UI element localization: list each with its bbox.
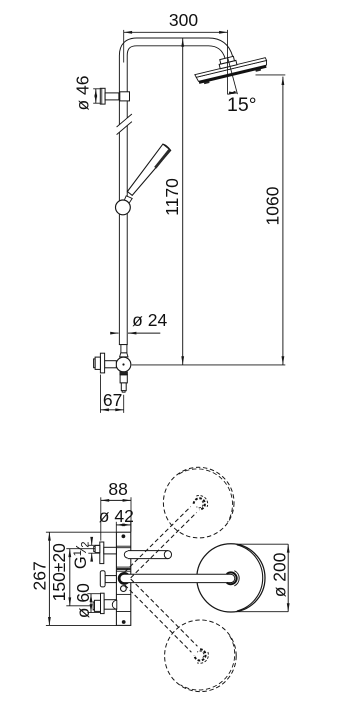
svg-text:1170: 1170 — [162, 178, 182, 216]
wire — [228, 57, 238, 94]
node F — [119, 573, 130, 584]
node H — [121, 586, 127, 592]
node J — [196, 496, 207, 507]
wire — [116, 545, 130, 547]
node B — [120, 92, 130, 101]
V2 — [105, 576, 116, 583]
wire — [256, 74, 286, 76]
wire — [125, 585, 192, 652]
wire — [131, 513, 197, 578]
Q1 — [116, 357, 131, 372]
svg-text:ø 46: ø 46 — [73, 75, 93, 110]
U4 — [197, 544, 265, 612]
wire — [227, 30, 229, 94]
svg-text:15°: 15° — [227, 94, 257, 116]
ground — [100, 88, 105, 104]
Q2 — [105, 361, 117, 368]
svg-text:267: 267 — [29, 561, 49, 590]
wire — [105, 93, 119, 100]
wire — [236, 543, 288, 545]
svg-text:67: 67 — [103, 390, 122, 410]
V1 — [100, 542, 104, 564]
node A — [119, 344, 128, 346]
Q3 — [120, 372, 128, 375]
wire — [100, 375, 102, 413]
wire — [128, 551, 168, 559]
node I — [124, 551, 131, 558]
svg-text:300: 300 — [169, 10, 198, 30]
wire — [87, 593, 100, 595]
wire — [132, 364, 286, 366]
wire — [113, 332, 119, 334]
V3 — [104, 600, 116, 610]
node G — [234, 571, 239, 586]
wire — [282, 77, 284, 365]
wire — [228, 93, 238, 94]
wire — [123, 30, 125, 63]
wire — [115, 522, 117, 532]
wire — [66, 548, 95, 550]
screw top — [122, 534, 126, 538]
svg-text:ø 24: ø 24 — [132, 310, 167, 330]
wire — [123, 42, 229, 345]
U3 — [116, 532, 130, 625]
svg-text:ø 200: ø 200 — [269, 552, 289, 597]
svg-text:150±20: 150±20 — [49, 543, 69, 602]
U1 — [127, 144, 170, 195]
node D — [116, 200, 131, 215]
svg-text:ø 42: ø 42 — [99, 506, 134, 526]
screw bottom — [122, 620, 126, 624]
wire — [93, 88, 100, 90]
wire — [124, 31, 228, 33]
node K — [197, 652, 208, 663]
wire — [117, 114, 132, 134]
wire — [88, 544, 99, 546]
U6 — [165, 620, 237, 692]
svg-text:ø 60: ø 60 — [73, 583, 93, 618]
wire — [46, 531, 117, 533]
U5 — [163, 467, 234, 538]
svg-text:1060: 1060 — [262, 186, 282, 225]
U2 — [193, 49, 269, 86]
wire — [120, 574, 235, 582]
node C — [124, 196, 132, 204]
wire — [182, 38, 184, 364]
wire — [100, 497, 102, 540]
node E — [219, 60, 237, 68]
svg-text:88: 88 — [108, 479, 127, 499]
